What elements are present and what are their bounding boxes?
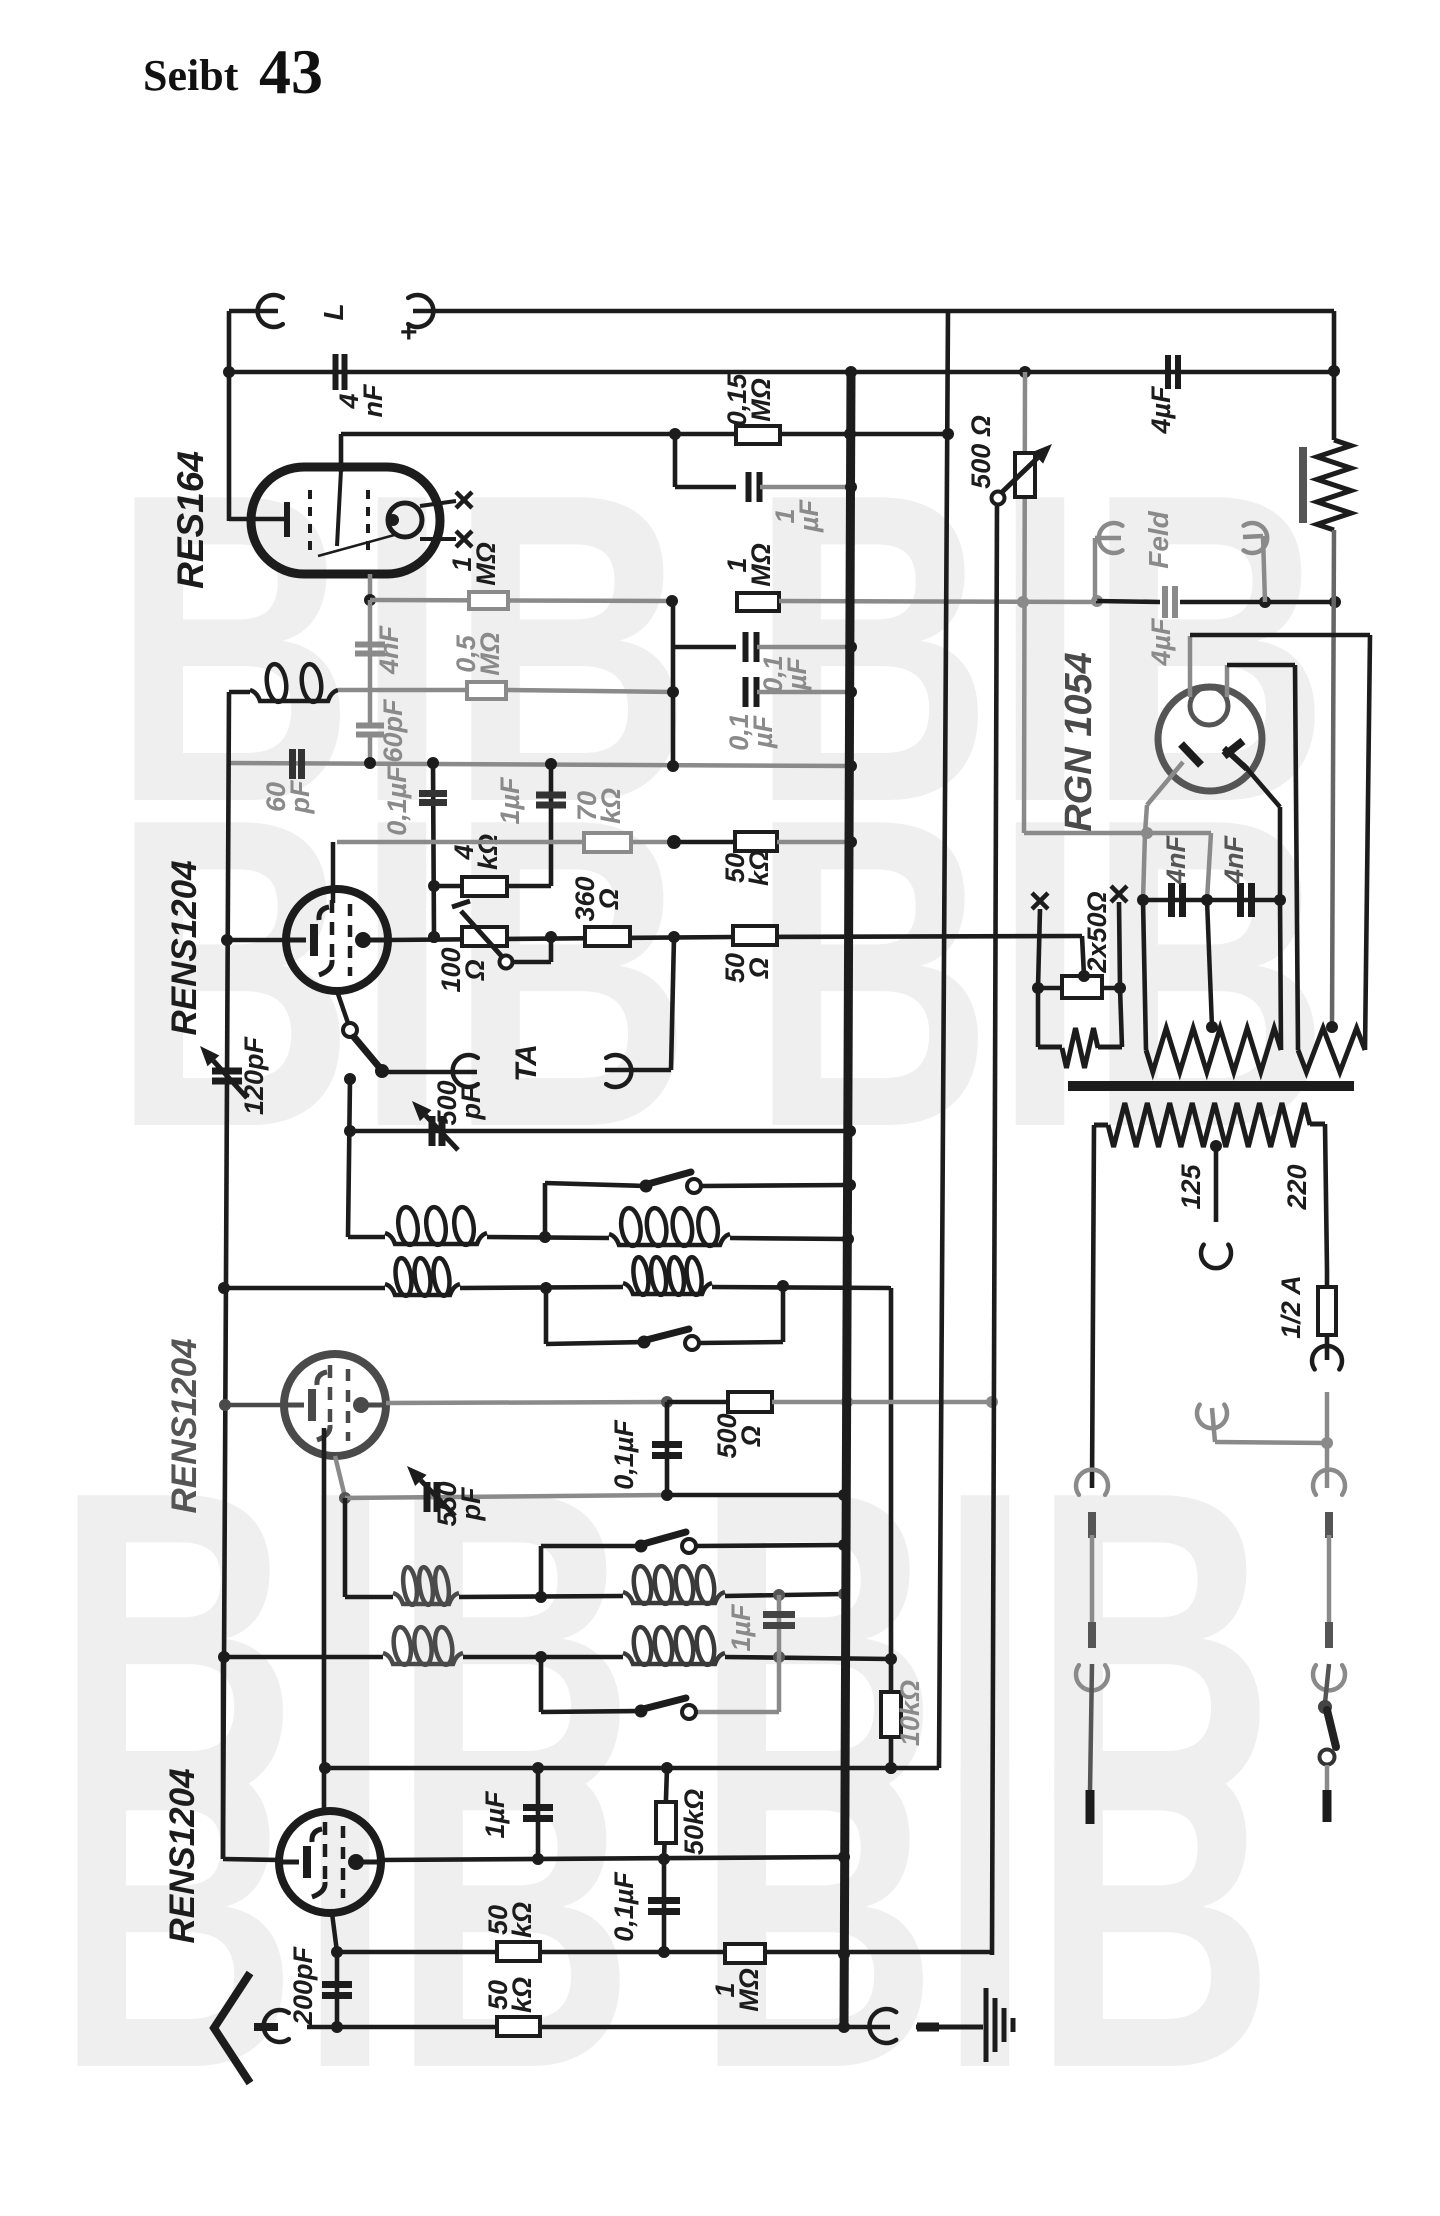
connector antenna arc — [264, 2010, 289, 2042]
wire y1443 branch — [1212, 1408, 1327, 1443]
label 50kohm bl1 — [483, 1902, 537, 1938]
coil hf choke — [250, 663, 338, 703]
junction tube2 grid — [219, 1399, 231, 1411]
svg-text:500pF: 500pF — [432, 1080, 486, 1125]
label 500ohm pot — [966, 415, 996, 489]
wire plate line — [388, 937, 733, 940]
wire plate line right — [733, 936, 1082, 937]
bus HT vertical — [844, 372, 851, 2027]
resistor 50kohm vert — [656, 1802, 676, 1843]
junction x433 y886 — [428, 880, 440, 892]
wire x664 low — [662, 1859, 667, 1952]
label RENS1204 no1 — [165, 860, 204, 1035]
connector pair right top — [1313, 1470, 1345, 1538]
junction x1327 y1443 — [1321, 1437, 1333, 1449]
label 4uF rail B — [1146, 385, 1176, 435]
capacitor 0.1uF x433 — [419, 794, 447, 803]
junction line C end — [942, 428, 954, 440]
junction line763 x433 — [427, 757, 439, 769]
heater winding W2 — [1143, 900, 1281, 1072]
connector TA left arc — [453, 1055, 478, 1087]
coil bank2 row1b — [623, 1565, 725, 1605]
switch tube1 cathode — [343, 1023, 389, 1078]
junction y1768 x667 — [661, 1762, 673, 1774]
label 0.1uF y647 — [758, 655, 812, 693]
coil bank2 row2a — [383, 1626, 463, 1666]
label 4nF top — [334, 383, 388, 417]
wire x667 — [665, 1402, 670, 1495]
wire x675 drop — [675, 434, 736, 487]
wire x1295 drop — [1295, 665, 1298, 1050]
junction line691 bus — [845, 686, 857, 698]
svg-text:0,1µF: 0,1µF — [724, 713, 778, 751]
label 4uF second — [1146, 617, 1176, 667]
label 50kohm bl2 — [483, 1977, 537, 2013]
junction plate x434 — [428, 931, 440, 943]
junction y988 right — [1114, 982, 1126, 994]
capacitor 60pF line763 — [293, 749, 302, 779]
junction b2row1 x541 — [535, 1591, 547, 1603]
wire x1092 mid — [1090, 1535, 1095, 1622]
svg-text:50kΩ: 50kΩ — [720, 850, 774, 886]
x mark b — [1111, 886, 1127, 902]
connector pair left bottom — [1076, 1622, 1108, 1690]
wire x370 — [368, 600, 373, 725]
junction line763 bus — [845, 760, 857, 772]
wire line 900 — [1143, 898, 1280, 903]
label L — [318, 303, 349, 320]
wire left drop from rail A — [227, 311, 232, 521]
resistor 70kohm — [584, 833, 631, 852]
svg-text:L: L — [318, 303, 349, 320]
wire x1092 low — [1090, 1664, 1092, 1792]
junction line763 x370 — [364, 757, 376, 769]
tube RES164 — [229, 467, 472, 574]
resistor 1Mohm a — [469, 592, 508, 609]
svg-text:0,5MΩ: 0,5MΩ — [451, 632, 505, 676]
wire y647 to bus — [757, 645, 851, 650]
wire primary right leg — [1325, 1124, 1327, 1270]
connector y1443 arc — [1197, 1405, 1227, 1429]
title Seibt 43 — [143, 36, 323, 107]
capacitor 200pF — [322, 1985, 352, 1996]
capacitor 0.1uF line691 — [746, 677, 757, 707]
label half amp — [1276, 1275, 1306, 1339]
junction W2 tap — [1206, 1021, 1218, 1033]
wire x1329 low — [1325, 1664, 1329, 1703]
label 1uF x538 — [480, 1790, 510, 1839]
svg-text:60pF: 60pF — [378, 698, 408, 763]
wire line 2027 — [307, 2025, 890, 2030]
junction y1952 bus — [838, 1948, 850, 1960]
resistor 500ohm y1402 — [728, 1392, 772, 1412]
wire stub y647 — [673, 645, 736, 650]
junction x433 y937 — [428, 931, 440, 943]
junction plate2 x667 — [661, 1396, 673, 1408]
junction line763 x551 — [545, 758, 557, 770]
svg-text:0,1µF: 0,1µF — [609, 1419, 639, 1490]
junction y900 left — [1137, 894, 1149, 906]
wire row2 left — [224, 1286, 385, 1291]
wire row1 right — [730, 1238, 848, 1239]
RGN electrodes — [1181, 741, 1247, 769]
wire x337 low — [335, 1952, 340, 2027]
wire plate2 right of bus — [847, 1400, 992, 1405]
junction x227 y940 — [221, 934, 233, 946]
wire 500ohm to bus — [772, 1400, 847, 1405]
junction left leg y833 — [1141, 827, 1153, 839]
svg-text:RENS1204: RENS1204 — [165, 1338, 204, 1513]
wire switch3 to bus — [696, 1545, 844, 1546]
svg-text:50kΩ: 50kΩ — [483, 1977, 537, 2013]
junction y1131 x350 — [344, 1125, 356, 1137]
coil bank1 row2a — [385, 1257, 460, 1297]
switch wave4 — [635, 1698, 697, 1719]
junction line600 x672 — [666, 595, 678, 607]
wire xmark b drop — [1119, 902, 1120, 988]
junction 2x50 tap — [1078, 970, 1090, 982]
pot 500ohm circle — [992, 492, 1005, 505]
wire tube2 grid to tube3 topcap — [322, 1428, 327, 1808]
wire riser x545 — [545, 1183, 646, 1237]
svg-text:43: 43 — [259, 36, 323, 107]
label 1Mohm b — [722, 543, 776, 587]
label 125 — [1176, 1163, 1206, 1209]
wire x891 vertical — [889, 1288, 894, 1768]
wire line 763 — [228, 763, 851, 766]
wire x1335 gray — [1332, 530, 1334, 1027]
junction y1768 x538 — [532, 1762, 544, 1774]
label 4nF mid — [374, 624, 404, 675]
wire filament left riser — [1188, 636, 1193, 697]
junction x891 y1659 — [885, 1653, 897, 1665]
junction line C bus — [844, 428, 856, 440]
resistor 50kohm bl1 — [497, 1942, 540, 1961]
label 1Mohm a — [447, 542, 501, 586]
capacitor 60pF mid — [356, 726, 384, 735]
svg-text:0,1µF: 0,1µF — [758, 655, 812, 693]
junction row2 x783 — [777, 1280, 789, 1292]
label 4nF b — [1219, 834, 1249, 885]
svg-text:200pF: 200pF — [288, 1945, 318, 2026]
wire tube3 grid lead — [223, 1657, 279, 1860]
switch mains — [1318, 1700, 1336, 1765]
tube RENS1204 no1 — [286, 889, 388, 991]
svg-text:4µF: 4µF — [1146, 385, 1176, 435]
transformer core — [1068, 1081, 1354, 1091]
tube RENS1204 no3 — [279, 1811, 381, 1913]
label 0.1uF x433 — [382, 765, 412, 836]
label RENS1204 no3 — [163, 1768, 202, 1943]
junction row2 x546 — [540, 1282, 552, 1294]
potentiometer 100ohm — [452, 901, 507, 961]
wire tube1 cathode — [337, 991, 348, 1023]
junction b2row1 bus — [838, 1588, 850, 1600]
junction grid riser y1768 — [319, 1762, 331, 1774]
label RES164 — [170, 451, 211, 589]
wire x673 vertical — [671, 601, 676, 767]
wire line 1952 — [337, 1950, 990, 1955]
wire y665 line — [1227, 663, 1295, 668]
junction switch3 bus — [838, 1539, 850, 1551]
wire line 1497 — [345, 1495, 667, 1498]
junction x1335 — [1329, 596, 1341, 608]
label 60pF mid — [378, 698, 408, 763]
wire anode RES164 down — [364, 574, 376, 606]
tube RGN1054 — [1158, 687, 1262, 791]
label TA — [510, 1044, 543, 1082]
wire x1209 — [1207, 833, 1212, 1027]
resistor 2x50ohm — [1062, 976, 1102, 998]
label 200pF — [288, 1945, 318, 2026]
RGN left leg — [1143, 762, 1183, 900]
connector pair left top — [1076, 1470, 1108, 1538]
wire b2row2 mid — [463, 1655, 623, 1660]
wire switch2 right — [699, 1286, 783, 1343]
junction y1495 bus — [838, 1489, 850, 1501]
svg-text:220: 220 — [1282, 1164, 1312, 1210]
primary winding — [1094, 1103, 1325, 1147]
wire line 1768 — [326, 1766, 939, 1771]
resistor 0.15Mohm — [736, 426, 780, 444]
wire row2 mid — [460, 1287, 623, 1288]
wire line 600 — [370, 600, 672, 601]
resistor 4kohm — [462, 877, 507, 896]
junction plate x551 — [545, 931, 557, 943]
wire top rail A — [413, 309, 1334, 314]
RGN right leg — [1243, 764, 1280, 900]
junction x891 y1768 — [885, 1762, 897, 1774]
junction line842 x674 — [667, 835, 681, 849]
svg-text:+: + — [400, 316, 418, 349]
antenna — [214, 1973, 278, 2083]
wire y936 corner — [1082, 936, 1084, 976]
wire 1uF to bus — [760, 485, 851, 490]
junction y900 mid — [1201, 894, 1213, 906]
capacitor 4uF rail B — [1168, 355, 1178, 389]
wire line 842 — [337, 840, 674, 845]
junction line763 x673 — [667, 760, 679, 772]
wire line 600 to right — [779, 601, 1096, 602]
connector plug L right arc — [408, 295, 433, 327]
svg-text:50Ω: 50Ω — [720, 953, 774, 983]
svg-text:125: 125 — [1176, 1163, 1206, 1209]
label Feld — [1143, 510, 1174, 568]
resistor 360ohm — [585, 927, 630, 946]
junction b2row2 x541 — [535, 1651, 547, 1663]
junction plate2 bus — [841, 1396, 853, 1408]
svg-text:RENS1204: RENS1204 — [163, 1768, 202, 1943]
junction y988 left — [1032, 982, 1044, 994]
wire y1495 to bus — [667, 1493, 844, 1498]
wire x992 vertical — [992, 504, 997, 1955]
resistor 1Mohm b — [737, 593, 779, 611]
label 0.1uF x667 — [609, 1419, 639, 1490]
svg-text:50kΩ: 50kΩ — [483, 1902, 537, 1938]
label 50kohm vert — [679, 1789, 709, 1855]
label 1uF top — [770, 498, 824, 533]
connector Feld right arc — [1244, 523, 1268, 553]
wire coil left corner — [229, 690, 250, 695]
wire b2row2 left — [224, 1655, 383, 1660]
svg-text:0,1µF: 0,1µF — [382, 765, 412, 836]
wire xmark a drop — [1038, 909, 1040, 988]
wire left vertical — [223, 692, 229, 1859]
switch wave1 — [640, 1172, 702, 1193]
junction line600 x1023 — [1017, 596, 1029, 608]
junction cathode2 — [339, 1492, 351, 1504]
ground lead — [916, 2025, 983, 2030]
wire row1 mid — [487, 1237, 609, 1238]
label 1Mohm bottom — [710, 1968, 764, 2012]
wire primary left leg — [1092, 1125, 1094, 1488]
connector pair right bottom — [1313, 1622, 1345, 1690]
capacitor 0.1uF x664 — [648, 1901, 680, 1912]
fuse half amp — [1318, 1270, 1336, 1360]
wire y988 — [1038, 986, 1120, 991]
junction y2027 x337 — [331, 2021, 343, 2033]
junction y1952 x337 — [331, 1946, 343, 1958]
heater winding W1 — [1038, 988, 1122, 1068]
wire b2row2 right — [725, 1657, 891, 1659]
label 50kohm y842 — [720, 850, 774, 886]
thick bar left of zigzag — [1299, 447, 1307, 523]
wire 0.5M right — [506, 690, 673, 692]
svg-text:500 Ω: 500 Ω — [966, 415, 996, 489]
wire x1329 mid — [1327, 1535, 1332, 1622]
wire line 1131 — [350, 1129, 850, 1134]
junction y647 bus — [845, 641, 857, 653]
wire TA line — [382, 1070, 477, 1075]
resistor 50ohm — [733, 926, 777, 945]
wire y886 4k — [434, 884, 551, 889]
capacitor 1uF top — [749, 472, 760, 502]
label RGN1054 — [1058, 652, 1100, 832]
capacitor 0.1uF x667 — [652, 1445, 682, 1456]
label 120pF — [239, 1035, 269, 1115]
svg-text:1µF: 1µF — [495, 776, 525, 825]
junction rail B x1025 — [1019, 366, 1031, 378]
label 500ohm y1402 — [712, 1413, 766, 1458]
wire line842 to bus — [777, 840, 851, 845]
plug pin left — [1086, 1790, 1095, 1824]
wire row1 left — [348, 1235, 385, 1240]
capacitor 1uF x779 — [763, 1615, 795, 1626]
junction y1857 x664 — [658, 1853, 670, 1865]
wire b2row1 left — [345, 1595, 393, 1600]
wire line691 to bus — [757, 690, 851, 695]
svg-text:10kΩ: 10kΩ — [895, 1680, 925, 1746]
capacitor 1uF x551 — [536, 795, 566, 805]
wire y833 — [1024, 831, 1211, 836]
tube RENS1204 no2 — [284, 1354, 386, 1456]
svg-text:1/2 A: 1/2 A — [1276, 1275, 1306, 1339]
capacitor 4nF mid — [355, 645, 385, 654]
svg-text:2x50Ω: 2x50Ω — [1082, 891, 1112, 973]
label 4nF a — [1161, 834, 1191, 885]
junction switch1 bus — [844, 1179, 856, 1191]
wire cathode2 down — [343, 1498, 348, 1597]
junction y1131 bus — [844, 1125, 856, 1137]
label 2x50 — [1082, 891, 1112, 973]
wire b2row1 mid — [459, 1596, 623, 1597]
switch wave2 — [638, 1329, 700, 1350]
wire x538 — [536, 1768, 541, 1859]
label 60pF line763 — [261, 779, 315, 814]
coil bank1 row2b — [623, 1256, 712, 1296]
label 70kohm — [572, 788, 626, 824]
label 100ohm — [436, 947, 490, 992]
wire x1327 mid — [1325, 1392, 1330, 1488]
svg-text:0,15MΩ: 0,15MΩ — [722, 373, 776, 427]
label 0.1uF line691 — [724, 713, 778, 751]
junction line C x675 — [669, 428, 681, 440]
junction line691 x673 — [667, 686, 679, 698]
x mark a — [1032, 893, 1048, 909]
wire line 600 right black — [1096, 601, 1160, 602]
junction rail B bus — [845, 366, 857, 378]
junction row1 x545 — [539, 1231, 551, 1243]
capacitor 4nF a — [1172, 883, 1183, 917]
svg-text:Feld: Feld — [1143, 510, 1174, 568]
wire tube2 cathode — [335, 1456, 345, 1497]
wire line 600 to x1265 — [1180, 600, 1335, 605]
svg-text:50kΩ: 50kΩ — [679, 1789, 709, 1855]
svg-text:RGN 1054: RGN 1054 — [1058, 652, 1100, 832]
connector 125 arc — [1201, 1245, 1231, 1269]
plug pin right — [1325, 1765, 1330, 1822]
wire grid lead tube1 — [229, 938, 286, 943]
switch wave3 — [635, 1532, 697, 1553]
junction rail B right end — [1328, 365, 1340, 377]
label 220 — [1282, 1164, 1312, 1210]
label 0.5Mohm — [451, 632, 505, 676]
wire rail B — [229, 370, 1334, 375]
wire x433 — [433, 763, 434, 937]
capacitor 4nF b — [1241, 883, 1252, 917]
capacitor 4nF top — [336, 354, 345, 390]
resistor 50kohm y842 — [735, 832, 777, 851]
wire right edge drop — [1332, 311, 1337, 440]
wire x350 down — [348, 1079, 350, 1237]
junction plate2 x992 — [986, 1396, 998, 1408]
junction y1495 x667 — [661, 1489, 673, 1501]
wire TA right — [605, 937, 674, 1070]
svg-text:120pF: 120pF — [239, 1035, 269, 1115]
label 1uF x551 — [495, 776, 525, 825]
wire switch1 to bus — [701, 1185, 850, 1186]
svg-text:70kΩ: 70kΩ — [572, 788, 626, 824]
wire line 1857 — [381, 1857, 844, 1860]
wire tube2 grid lead — [225, 1403, 284, 1408]
resistor 1Mohm bottom — [725, 1944, 765, 1963]
wire x1370 drop — [1365, 635, 1370, 1050]
potentiometer 500ohm — [999, 444, 1052, 497]
wire x939 riser — [939, 310, 948, 1768]
wire line C — [341, 432, 948, 437]
wire topcap tube1 — [331, 842, 336, 903]
label 10kohm — [895, 1680, 925, 1746]
svg-text:4nF: 4nF — [1161, 834, 1191, 885]
svg-text:RES164: RES164 — [170, 451, 211, 589]
junction sw5 lower — [344, 1073, 356, 1085]
wire top rail A left — [229, 309, 278, 314]
wire x667 low — [664, 1768, 667, 1859]
junction plate x674 — [668, 931, 680, 943]
wire x370 b — [368, 735, 373, 764]
wire riser switch3 — [541, 1546, 641, 1597]
label 1uF x779 — [726, 1603, 756, 1652]
